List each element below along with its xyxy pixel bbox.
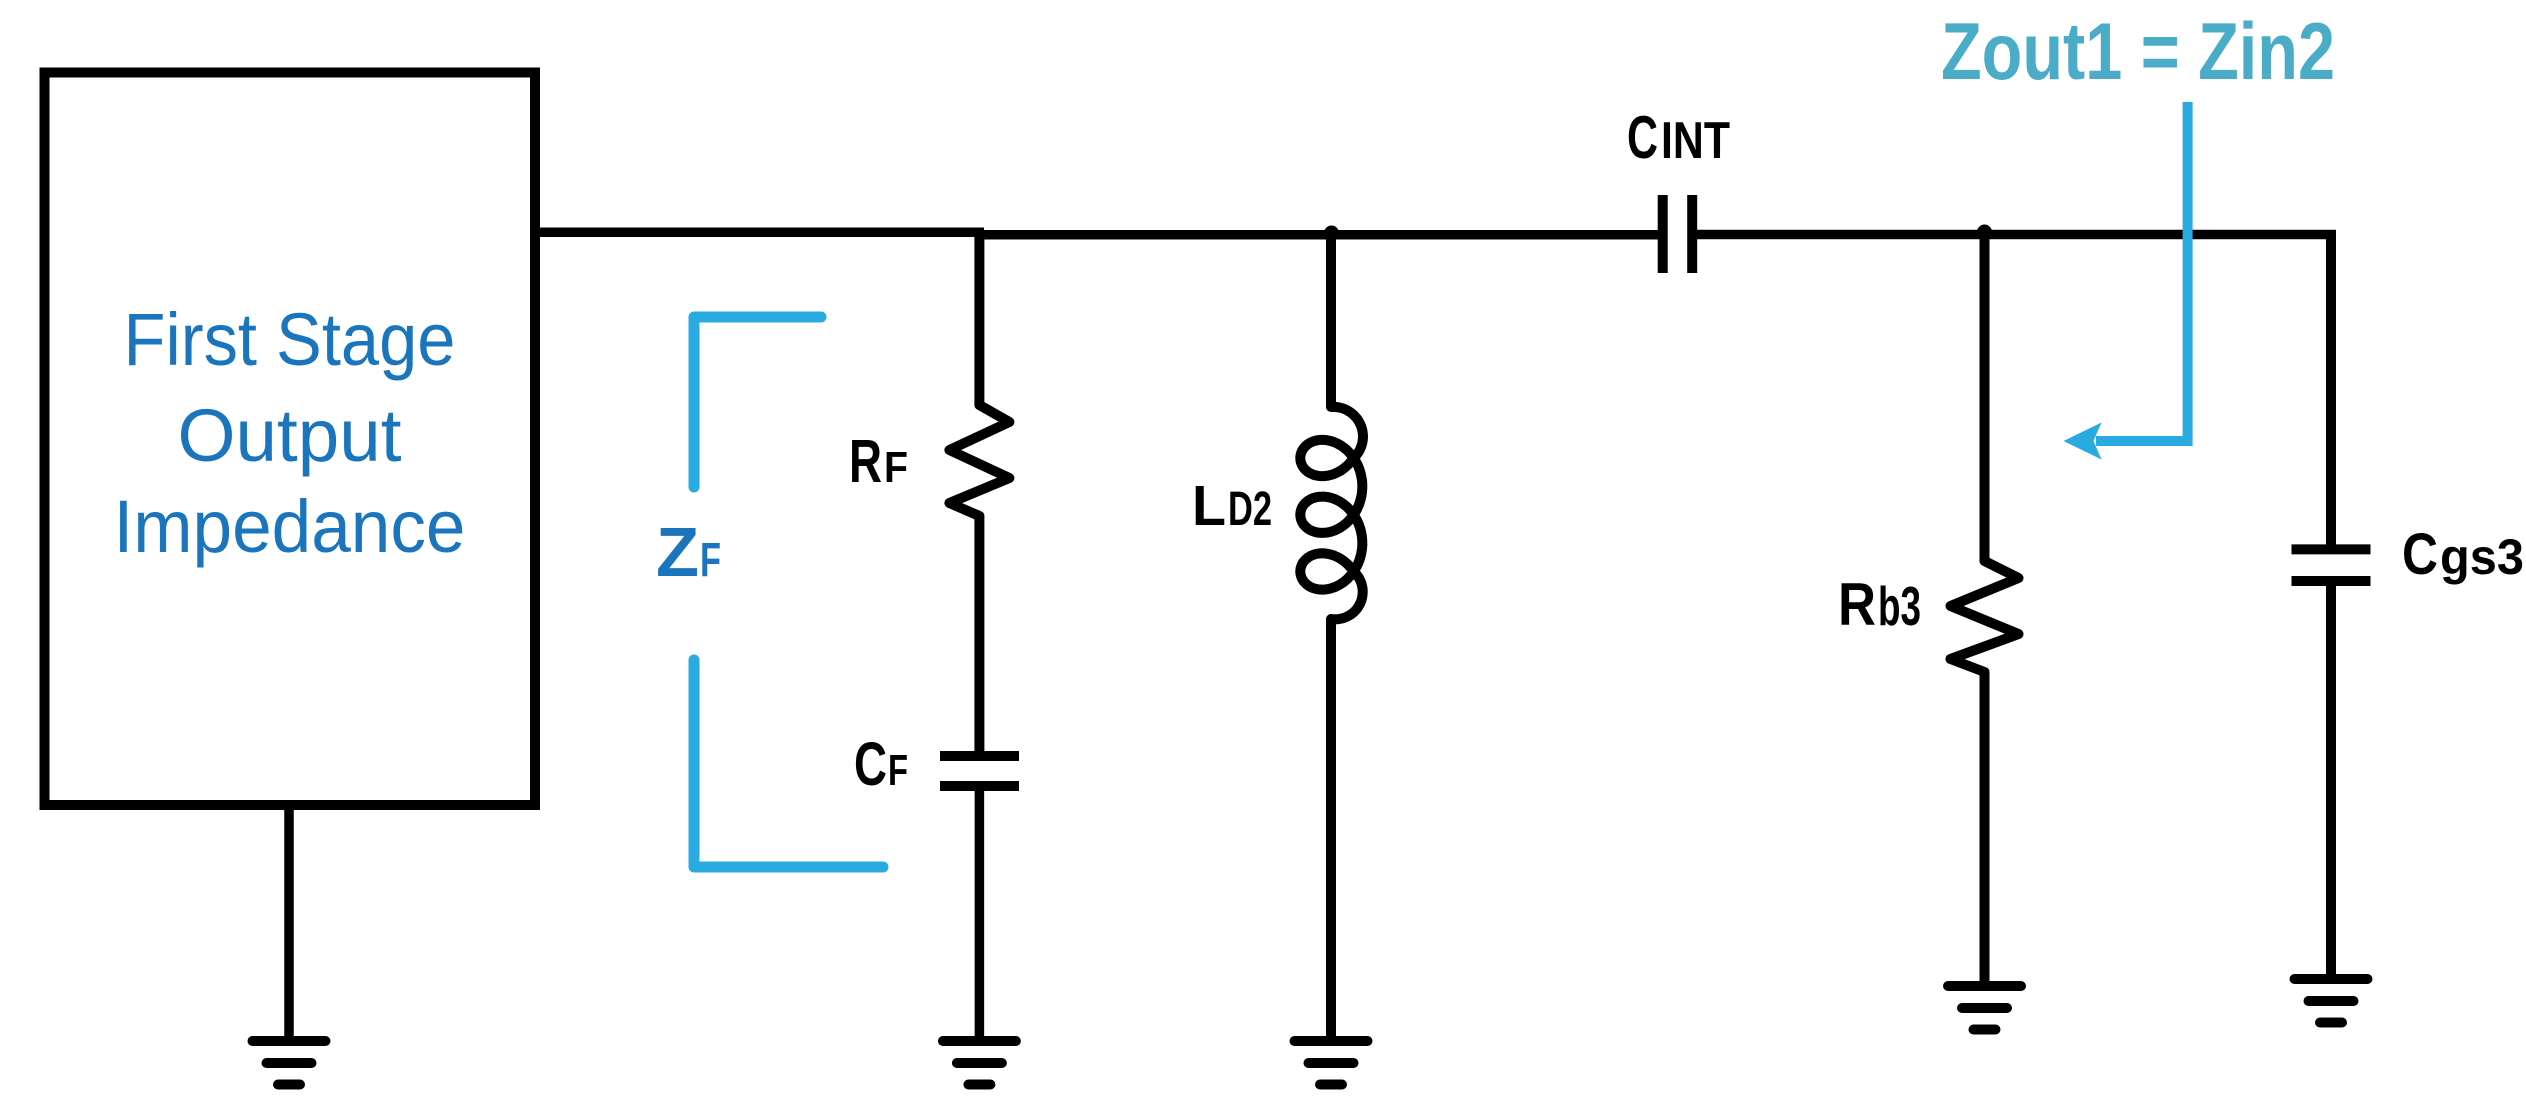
svg-text:Z: Z xyxy=(656,513,699,591)
svg-text:Zout1 = Zin2: Zout1 = Zin2 xyxy=(1941,7,2335,97)
svg-text:C: C xyxy=(2402,522,2438,587)
svg-text:F: F xyxy=(884,443,908,492)
svg-text:INT: INT xyxy=(1661,112,1730,170)
svg-text:R: R xyxy=(1838,571,1876,638)
svg-text:F: F xyxy=(700,534,721,587)
svg-text:Output: Output xyxy=(178,394,402,477)
svg-text:C: C xyxy=(1627,104,1658,171)
svg-text:D2: D2 xyxy=(1228,483,1272,536)
svg-text:gs3: gs3 xyxy=(2440,529,2524,585)
svg-text:First Stage: First Stage xyxy=(124,298,456,381)
svg-text:L: L xyxy=(1192,474,1226,538)
svg-text:C: C xyxy=(854,730,887,798)
svg-text:R: R xyxy=(849,427,882,495)
svg-text:F: F xyxy=(888,746,908,795)
svg-text:Impedance: Impedance xyxy=(114,485,466,568)
svg-text:b3: b3 xyxy=(1878,575,1921,637)
